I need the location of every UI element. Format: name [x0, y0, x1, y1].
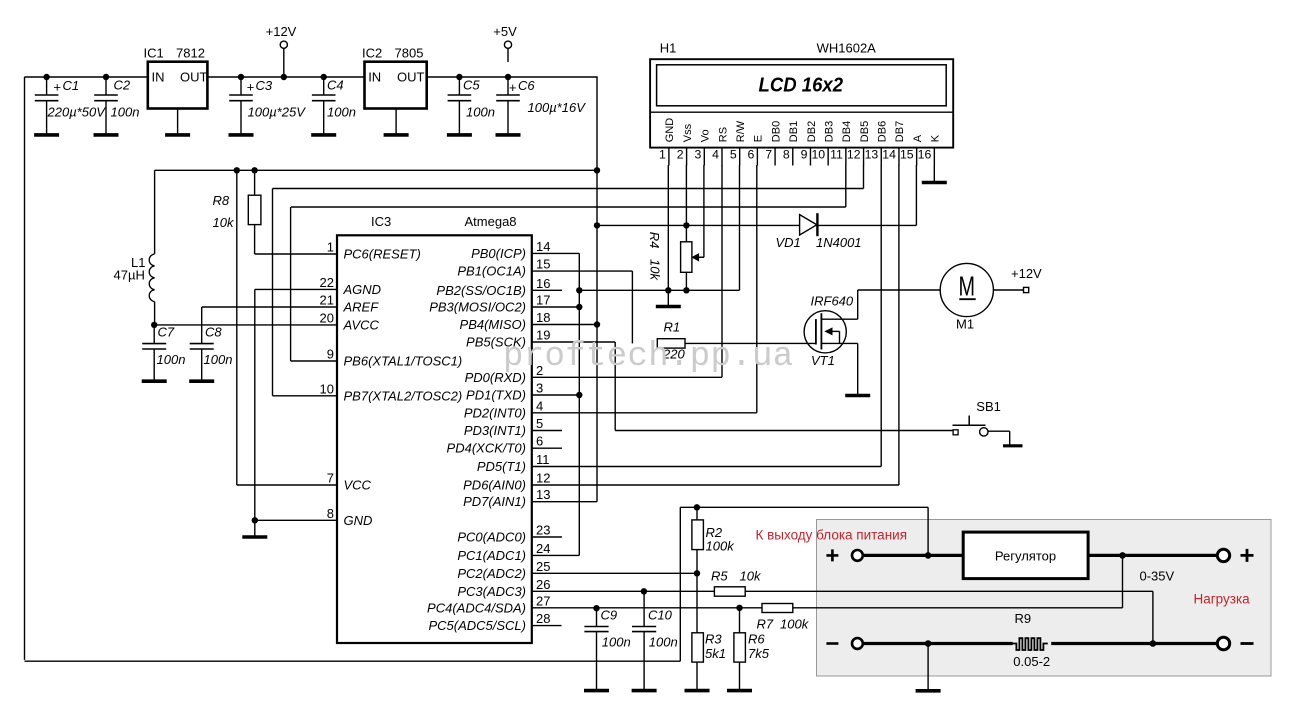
terminal plus input — [826, 549, 862, 561]
node minus sense tap — [1150, 640, 1157, 647]
svg-text:8: 8 — [783, 147, 790, 161]
ground LCD pin16 K — [922, 165, 947, 183]
svg-text:14: 14 — [882, 147, 896, 161]
wire pin16 stub — [532, 289, 562, 291]
wire GND pin8 — [255, 519, 337, 521]
node R6 R7 junction — [736, 605, 742, 611]
wire R7 to plus sense — [793, 555, 1123, 607]
wire bus A vertical — [578, 253, 580, 555]
wire IC1 OUT to IC2 IN +12V rail — [207, 76, 364, 78]
inductor L1 — [114, 170, 155, 325]
svg-text:100n: 100n — [111, 104, 140, 119]
svg-text:21: 21 — [320, 293, 334, 308]
svg-text:R3: R3 — [705, 632, 722, 647]
svg-text:Нагрузка: Нагрузка — [1194, 592, 1251, 607]
wire pin23 stub — [532, 536, 562, 538]
resistor R2 — [692, 507, 735, 573]
lcd pin stubs — [669, 148, 934, 166]
svg-text:20: 20 — [320, 310, 334, 325]
svg-text:10: 10 — [320, 381, 334, 396]
svg-text:C4: C4 — [327, 78, 344, 93]
node R2 R3 junction — [694, 570, 700, 576]
svg-text:M1: M1 — [956, 317, 974, 332]
svg-text:28: 28 — [536, 611, 550, 626]
svg-text:C2: C2 — [114, 78, 131, 93]
capacitor C8 — [189, 307, 232, 381]
svg-text:IN: IN — [152, 70, 165, 85]
wire pin18 PB4 — [532, 324, 597, 326]
svg-text:E: E — [753, 135, 765, 142]
svg-text:A: A — [912, 134, 924, 142]
svg-text:15: 15 — [900, 147, 914, 161]
svg-text:220µ*50V: 220µ*50V — [47, 104, 107, 119]
ground VT1 source — [845, 343, 870, 395]
svg-text:IC3: IC3 — [371, 214, 391, 229]
svg-text:PC1(ADC1): PC1(ADC1) — [457, 548, 526, 563]
svg-text:OUT: OUT — [180, 70, 208, 85]
svg-text:R1: R1 — [664, 320, 681, 335]
node plus sense tap — [925, 552, 932, 559]
wire left input bus down — [24, 77, 26, 660]
wire pin13 PD7 — [532, 501, 597, 503]
svg-text:H1: H1 — [660, 41, 677, 56]
power block background — [817, 520, 1272, 677]
svg-text:6: 6 — [536, 434, 543, 449]
svg-text:proftech.pp.ua: proftech.pp.ua — [503, 338, 794, 376]
svg-text:R6: R6 — [748, 632, 765, 647]
node VCC rail R8 — [251, 167, 257, 173]
svg-text:100n: 100n — [602, 635, 631, 650]
wire pin4 PD2 to LCD E — [532, 412, 757, 414]
svg-text:4: 4 — [536, 398, 543, 413]
svg-text:PD7(AIN1): PD7(AIN1) — [463, 494, 526, 509]
svg-text:24: 24 — [536, 541, 550, 556]
lcd H1 WH1602A outer box — [650, 41, 953, 148]
svg-text:C10: C10 — [648, 608, 673, 623]
ground SB1 — [1003, 431, 1023, 446]
svg-text:VT1: VT1 — [811, 353, 835, 368]
svg-text:M: M — [959, 270, 976, 301]
svg-text:+12V: +12V — [266, 24, 297, 39]
svg-text:PB1(OC1A): PB1(OC1A) — [457, 264, 526, 279]
svg-text:+12V: +12V — [1011, 266, 1042, 281]
svg-text:11: 11 — [536, 452, 550, 467]
wire IC2 OUT +5V rail to corner — [427, 76, 598, 78]
wire minus line — [863, 642, 1013, 645]
wire pin19 PB5 — [532, 342, 615, 431]
svg-text:R4: R4 — [647, 232, 662, 249]
svg-text:9: 9 — [801, 147, 808, 161]
wire XTAL1 pin9 — [291, 207, 337, 361]
svg-text:100n: 100n — [649, 635, 678, 650]
svg-text:PC5(ADC5/SCL): PC5(ADC5/SCL) — [428, 618, 526, 633]
svg-text:DB2: DB2 — [806, 121, 818, 142]
mcu IC3 right pin labels — [427, 239, 550, 633]
svg-text:8: 8 — [327, 506, 334, 521]
svg-text:12: 12 — [847, 147, 861, 161]
wire pin11 PD5 to LCD DB6 — [532, 466, 881, 468]
node pin17 bus A — [576, 304, 582, 310]
potentiometer R4 — [647, 232, 704, 290]
capacitor C9 — [584, 608, 631, 691]
svg-text:100n: 100n — [204, 352, 233, 367]
svg-text:PD3(INT1): PD3(INT1) — [464, 423, 526, 438]
mcu IC3 left pin labels — [320, 240, 463, 528]
svg-text:LCD 16x2: LCD 16x2 — [759, 73, 844, 96]
node AVCC junction — [151, 322, 157, 328]
svg-text:4: 4 — [712, 147, 719, 161]
svg-text:10k: 10k — [213, 215, 235, 230]
mcu IC3 Atmega8 box — [337, 214, 532, 643]
label 0-35V — [1140, 569, 1175, 584]
wire LCD pin2 Vss down to R4 top — [685, 165, 687, 242]
capacitor C1 — [34, 77, 106, 135]
label to PSU output — [756, 528, 908, 543]
svg-text:SB1: SB1 — [976, 399, 1001, 414]
svg-text:+: + — [509, 80, 517, 95]
wire SB1 row — [615, 430, 953, 432]
svg-text:C6: C6 — [518, 78, 535, 93]
svg-text:100µ*16V: 100µ*16V — [528, 100, 587, 115]
wire +V input rail — [25, 76, 148, 78]
wire pin26 PC3 to R5 — [532, 590, 714, 592]
svg-text:AGND: AGND — [343, 282, 382, 297]
wire +5V vertical bus — [596, 77, 598, 502]
svg-text:DB1: DB1 — [788, 121, 800, 142]
svg-text:0-35V: 0-35V — [1140, 569, 1175, 584]
svg-text:7805: 7805 — [395, 46, 424, 61]
regulator IC1 7812 — [144, 46, 208, 109]
svg-text:C8: C8 — [205, 325, 222, 340]
watermark — [503, 338, 794, 376]
motor M1 — [940, 263, 993, 331]
svg-text:PC4(ADC4/SDA): PC4(ADC4/SDA) — [427, 600, 526, 615]
node VCC rail to +5V bus — [594, 167, 600, 173]
svg-text:IRF640: IRF640 — [811, 294, 854, 309]
svg-text:PB7(XTAL2/TOSC2): PB7(XTAL2/TOSC2) — [344, 388, 463, 403]
node C5 junction — [456, 74, 462, 80]
resistor R8 — [213, 170, 261, 254]
wire VCC drop to pin7 — [237, 170, 337, 485]
node pin18 +5V bus — [594, 321, 600, 327]
svg-text:13: 13 — [865, 147, 879, 161]
svg-text:17: 17 — [536, 293, 550, 308]
svg-text:К выходу блока питания: К выходу блока питания — [756, 528, 908, 543]
svg-text:DB5: DB5 — [859, 121, 871, 142]
svg-text:VD1: VD1 — [776, 235, 801, 250]
node +5V to VD1 rail — [594, 222, 600, 228]
ground LCD GND net — [656, 290, 681, 306]
terminal +5V — [493, 24, 517, 62]
resistor R5 — [711, 569, 762, 597]
terminal minus output — [1217, 637, 1253, 649]
node LCD GND drop — [665, 287, 671, 293]
regulator block — [963, 532, 1088, 579]
svg-text:15: 15 — [536, 257, 550, 272]
wire bottom sense — [25, 507, 681, 661]
svg-text:+: + — [247, 80, 255, 95]
svg-text:5: 5 — [730, 147, 737, 161]
svg-text:3: 3 — [694, 147, 701, 161]
wire LCD pin1 GND down — [667, 165, 669, 290]
svg-text:7: 7 — [765, 147, 772, 161]
svg-text:16: 16 — [918, 147, 932, 161]
svg-text:5k1: 5k1 — [705, 646, 726, 661]
wire LCD pin3 Vo down — [696, 165, 704, 257]
svg-text:16: 16 — [536, 276, 550, 291]
svg-text:22: 22 — [320, 275, 334, 290]
svg-text:C9: C9 — [601, 608, 618, 623]
node AGND to GND pin8 — [252, 517, 258, 523]
wire LCD pin11 DB4 down — [845, 165, 847, 207]
node minus gnd tap — [925, 640, 932, 647]
wire pin17 PB3 — [532, 306, 580, 308]
svg-text:PB0(ICP): PB0(ICP) — [471, 246, 526, 261]
terminal +12V — [266, 24, 297, 77]
wire LCD pin4 RS down — [721, 165, 723, 377]
svg-text:1: 1 — [659, 147, 666, 161]
wire LCD pin15 A down — [915, 165, 917, 225]
svg-text:PB4(MISO): PB4(MISO) — [460, 317, 526, 332]
svg-text:14: 14 — [536, 239, 550, 254]
svg-text:C7: C7 — [158, 325, 175, 340]
shunt R9 — [1012, 611, 1050, 669]
svg-text:10k: 10k — [648, 259, 663, 281]
ground AGND — [242, 520, 267, 537]
wire pin15 PB1 to R1 — [532, 271, 633, 343]
svg-text:PD5(T1): PD5(T1) — [477, 459, 526, 474]
svg-text:AREF: AREF — [343, 300, 380, 315]
svg-text:11: 11 — [830, 147, 843, 161]
wire pin6 stub — [532, 447, 562, 449]
wire AGND pin22 — [255, 289, 337, 520]
svg-text:C5: C5 — [463, 78, 480, 93]
svg-text:R7: R7 — [757, 617, 774, 632]
svg-text:DB0: DB0 — [770, 121, 782, 142]
svg-text:7k5: 7k5 — [748, 646, 770, 661]
wire DB4 row — [291, 206, 846, 208]
node C2 junction — [103, 74, 109, 80]
svg-text:47µH: 47µH — [114, 268, 145, 283]
svg-text:IC2: IC2 — [362, 46, 382, 61]
capacitor C2 — [94, 77, 140, 135]
resistor R3 — [685, 573, 726, 690]
wire pin3 PD1 — [532, 394, 580, 396]
resistor R6 — [727, 608, 770, 691]
svg-text:10k: 10k — [740, 569, 762, 584]
switch SB1 — [953, 399, 1010, 436]
capacitor C10 — [632, 591, 678, 690]
wire LCD pin13 DB6 down — [880, 165, 882, 467]
svg-text:DB3: DB3 — [823, 121, 835, 142]
wire VD1 anode rail — [597, 224, 916, 226]
svg-text:PB6(XTAL1/TOSC1): PB6(XTAL1/TOSC1) — [344, 354, 463, 369]
capacitor C3 — [229, 77, 307, 135]
wire AVCC pin20 — [154, 324, 337, 326]
svg-text:0.05-2: 0.05-2 — [1013, 654, 1050, 669]
wire R2 rail down — [927, 507, 929, 555]
node C1 junction — [43, 74, 49, 80]
label load — [1194, 592, 1251, 607]
svg-text:+: + — [53, 80, 61, 95]
svg-text:9: 9 — [327, 347, 334, 362]
svg-text:PC2(ADC2): PC2(ADC2) — [457, 566, 526, 581]
node VCC rail vertical — [234, 167, 240, 173]
wire XTAL2 pin10 — [273, 189, 338, 396]
wire AREF pin21 — [202, 306, 337, 308]
node +12V junction — [281, 74, 287, 80]
svg-text:23: 23 — [536, 523, 550, 538]
svg-text:6: 6 — [748, 147, 755, 161]
svg-text:100k: 100k — [706, 539, 736, 554]
terminal plus output — [1217, 549, 1253, 562]
svg-text:GND: GND — [664, 118, 676, 143]
svg-text:K: K — [930, 134, 942, 142]
wire LCD pin5 RW down — [739, 165, 741, 290]
svg-text:Vss: Vss — [682, 123, 694, 142]
node plus out tap — [1119, 552, 1126, 559]
svg-text:R9: R9 — [1015, 611, 1032, 626]
svg-text:100n: 100n — [157, 352, 186, 367]
svg-text:WH1602A: WH1602A — [817, 41, 877, 56]
svg-text:18: 18 — [536, 310, 550, 325]
svg-text:100µ*25V: 100µ*25V — [248, 104, 307, 119]
node C10 junction — [641, 588, 647, 594]
svg-text:RS: RS — [717, 127, 729, 142]
svg-text:Регулятор: Регулятор — [995, 549, 1056, 564]
svg-text:100n: 100n — [327, 104, 356, 119]
svg-text:7812: 7812 — [176, 46, 205, 61]
ground IC1 — [165, 109, 190, 135]
wire pin2 PD0 to LCD RS — [532, 376, 722, 378]
svg-text:PC6(RESET): PC6(RESET) — [344, 247, 421, 262]
terminal minus input — [826, 638, 862, 649]
wire R1 to gate — [685, 342, 816, 344]
wire minus line out — [1051, 642, 1223, 645]
node pin3 bus A — [576, 392, 582, 398]
svg-text:26: 26 — [536, 577, 550, 592]
wire R2 top rail — [680, 506, 928, 508]
wire R5 to minus sense — [745, 591, 1153, 643]
svg-text:PD1(TXD): PD1(TXD) — [466, 388, 526, 403]
node C4 junction — [321, 74, 327, 80]
wire pin25 PC2 to divider — [532, 572, 697, 574]
svg-text:PD2(INT0): PD2(INT0) — [464, 405, 526, 420]
wire LCD pin12 DB5 down — [863, 165, 865, 189]
svg-text:13: 13 — [536, 487, 550, 502]
diode VD1 1N4001 — [776, 213, 862, 250]
svg-text:2: 2 — [677, 147, 684, 161]
svg-text:7: 7 — [327, 471, 334, 486]
svg-text:100n: 100n — [466, 104, 495, 119]
wire plus line out — [1088, 554, 1223, 557]
wire ground net row — [579, 289, 739, 291]
ground PSU minus — [916, 644, 941, 691]
svg-text:Atmega8: Atmega8 — [465, 214, 517, 229]
svg-text:PB3(MOSI/OC2): PB3(MOSI/OC2) — [429, 300, 526, 315]
svg-text:OUT: OUT — [397, 70, 425, 85]
svg-text:DB6: DB6 — [877, 121, 889, 142]
svg-text:R8: R8 — [213, 193, 230, 208]
wire plus line — [863, 554, 963, 557]
wire pin24 PC1 — [532, 554, 580, 556]
ground IC2 — [384, 109, 409, 135]
wire pin27 PC4 to R7 — [532, 607, 762, 609]
svg-text:R5: R5 — [711, 569, 728, 584]
node R2 top — [694, 504, 700, 510]
svg-text:3: 3 — [536, 381, 543, 396]
wire pin5 stub — [532, 430, 562, 432]
node C6 junction — [505, 74, 511, 80]
capacitor C4 — [311, 77, 356, 135]
wire DB5 row — [273, 188, 864, 190]
svg-text:C1: C1 — [63, 78, 80, 93]
svg-text:DB7: DB7 — [894, 121, 906, 142]
svg-text:PC3(ADC3): PC3(ADC3) — [457, 584, 526, 599]
wire LCD pin14 DB7 down — [898, 165, 900, 485]
capacitor C6 — [496, 77, 587, 135]
svg-text:PD6(AIN0): PD6(AIN0) — [463, 478, 526, 493]
svg-text:PD4(XCK/T0): PD4(XCK/T0) — [447, 441, 526, 456]
regulator IC2 7805 — [362, 46, 427, 109]
wire pin28 stub — [532, 625, 562, 627]
node R4 bottom — [683, 287, 689, 293]
svg-text:DB4: DB4 — [841, 121, 853, 142]
lcd pin numbers and labels — [659, 118, 942, 162]
capacitor C7 — [142, 325, 186, 382]
svg-text:27: 27 — [536, 593, 550, 608]
svg-text:IC1: IC1 — [144, 46, 164, 61]
svg-text:IN: IN — [368, 70, 381, 85]
svg-text:PB2(SS/OC1B): PB2(SS/OC1B) — [436, 283, 526, 298]
node C9 junction — [593, 605, 599, 611]
svg-text:+5V: +5V — [493, 24, 517, 39]
svg-text:12: 12 — [536, 471, 550, 486]
wire R8 to pin1 — [255, 253, 337, 255]
svg-text:1N4001: 1N4001 — [816, 235, 862, 250]
transistor VT1 IRF640 — [804, 294, 858, 369]
svg-text:PC0(ADC0): PC0(ADC0) — [457, 530, 526, 545]
svg-text:10: 10 — [811, 147, 825, 161]
svg-text:100k: 100k — [780, 617, 810, 632]
capacitor C5 — [447, 77, 495, 135]
svg-text:C3: C3 — [256, 78, 273, 93]
lcd divider line — [650, 111, 953, 113]
node wire VD1 to R4 LCD — [683, 222, 689, 228]
svg-text:1: 1 — [327, 240, 334, 255]
wire pin14 PB0 — [532, 252, 580, 254]
resistor R7 — [757, 604, 810, 632]
lcd display inner box — [657, 65, 947, 106]
svg-text:Vo: Vo — [700, 129, 712, 142]
svg-text:5: 5 — [536, 416, 543, 431]
wire LCD pin6 E down — [756, 165, 758, 413]
svg-text:VCC: VCC — [344, 478, 372, 493]
wire motor to +12V terminal — [993, 266, 1042, 293]
wire VCC rail — [155, 169, 597, 171]
node C3 junction — [238, 74, 244, 80]
node bus A pin16 row — [576, 287, 582, 293]
svg-text:25: 25 — [536, 559, 550, 574]
svg-text:R/W: R/W — [735, 120, 747, 142]
resistor R1 — [657, 320, 685, 362]
wire pin12 PD6 to LCD DB7 — [532, 484, 899, 486]
wire drain to motor — [858, 290, 941, 319]
svg-text:GND: GND — [344, 513, 373, 528]
svg-text:AVCC: AVCC — [343, 317, 380, 332]
